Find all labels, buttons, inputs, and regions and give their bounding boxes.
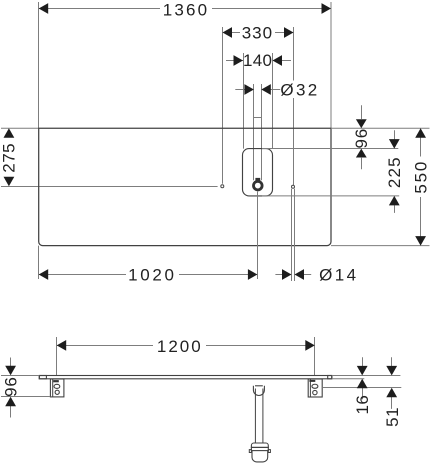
svg-text:Ø32: Ø32 [280, 81, 319, 100]
svg-text:550: 550 [412, 160, 431, 194]
svg-text:16: 16 [353, 395, 372, 415]
svg-text:1200: 1200 [157, 337, 203, 356]
svg-text:1020: 1020 [128, 265, 177, 284]
svg-text:275: 275 [0, 143, 19, 173]
svg-text:96: 96 [352, 128, 371, 149]
svg-text:51: 51 [383, 407, 402, 427]
svg-text:Ø14: Ø14 [319, 265, 358, 284]
svg-text:140: 140 [243, 51, 272, 70]
svg-text:330: 330 [242, 24, 273, 43]
svg-text:225: 225 [385, 156, 404, 188]
svg-text:1360: 1360 [163, 0, 210, 19]
svg-text:96: 96 [1, 376, 20, 397]
